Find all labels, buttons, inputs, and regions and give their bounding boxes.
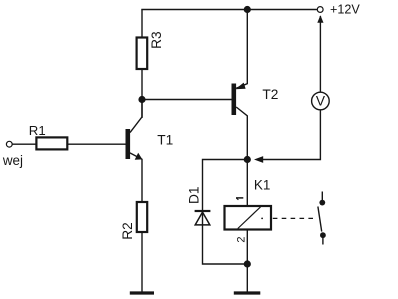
- wire T1 emitter: [130, 153, 142, 202]
- arrow left into node B: [254, 156, 263, 163]
- svg-text:D1: D1: [187, 187, 202, 205]
- svg-text:+12V: +12V: [330, 3, 360, 17]
- terminal wej: [2, 141, 23, 168]
- node C junction: [244, 260, 251, 267]
- terminal +12V: [317, 3, 360, 17]
- transistor T1: [126, 129, 174, 160]
- wire node C to ground: [246, 264, 248, 292]
- diode D1: [187, 187, 211, 225]
- wire relay pin 2 to node C: [246, 230, 248, 265]
- resistor R1: [29, 123, 68, 150]
- wire switch lever: [318, 207, 322, 232]
- node B junction: [244, 156, 251, 163]
- dashed actuation link: [273, 217, 315, 219]
- wire V source to +12V arrow: [319, 16, 321, 92]
- wire R3 top: [141, 10, 143, 38]
- voltmeter source U1: [312, 92, 330, 110]
- node A junction: [138, 96, 145, 103]
- wire node B to V source branch: [263, 92, 321, 160]
- svg-text:R3: R3: [149, 31, 164, 49]
- switch contact bottom: [320, 232, 326, 238]
- wire switch top stub: [321, 192, 323, 203]
- transistor T2: [232, 83, 279, 115]
- svg-text:V: V: [316, 94, 326, 109]
- svg-text:K1: K1: [254, 177, 271, 192]
- wire T2 emitter vertical: [236, 10, 247, 89]
- svg-text:T2: T2: [262, 87, 278, 102]
- switch contact top: [319, 200, 325, 206]
- wire R3 bottom to T1 collector: [141, 69, 143, 118]
- wire T2 collector: [236, 107, 247, 160]
- wire top rail: [141, 9, 317, 11]
- wire T1 collector: [130, 100, 142, 133]
- relay coil K1: [225, 177, 272, 229]
- wire switch bottom stub: [322, 235, 324, 245]
- wire input to R1: [12, 143, 36, 145]
- wire R2 to ground: [141, 232, 143, 292]
- svg-text:R1: R1: [29, 123, 46, 138]
- node top junction: [244, 6, 251, 13]
- svg-text:T1: T1: [157, 132, 173, 147]
- wire node B through D1 branch to node C: [203, 160, 248, 265]
- svg-text:wej: wej: [2, 153, 23, 168]
- ground right: [234, 291, 260, 294]
- wire node B to relay pin 1: [246, 160, 248, 207]
- resistor R2: [120, 202, 147, 240]
- arrow up at +12V: [317, 15, 323, 23]
- resistor R3: [137, 31, 164, 69]
- wire T2 base from node A: [142, 99, 232, 101]
- svg-text:R2: R2: [120, 222, 135, 240]
- pin label 1: [236, 198, 243, 200]
- ground left: [130, 291, 154, 294]
- svg-text:2: 2: [236, 236, 248, 242]
- wire R1 to T1 base: [67, 143, 125, 145]
